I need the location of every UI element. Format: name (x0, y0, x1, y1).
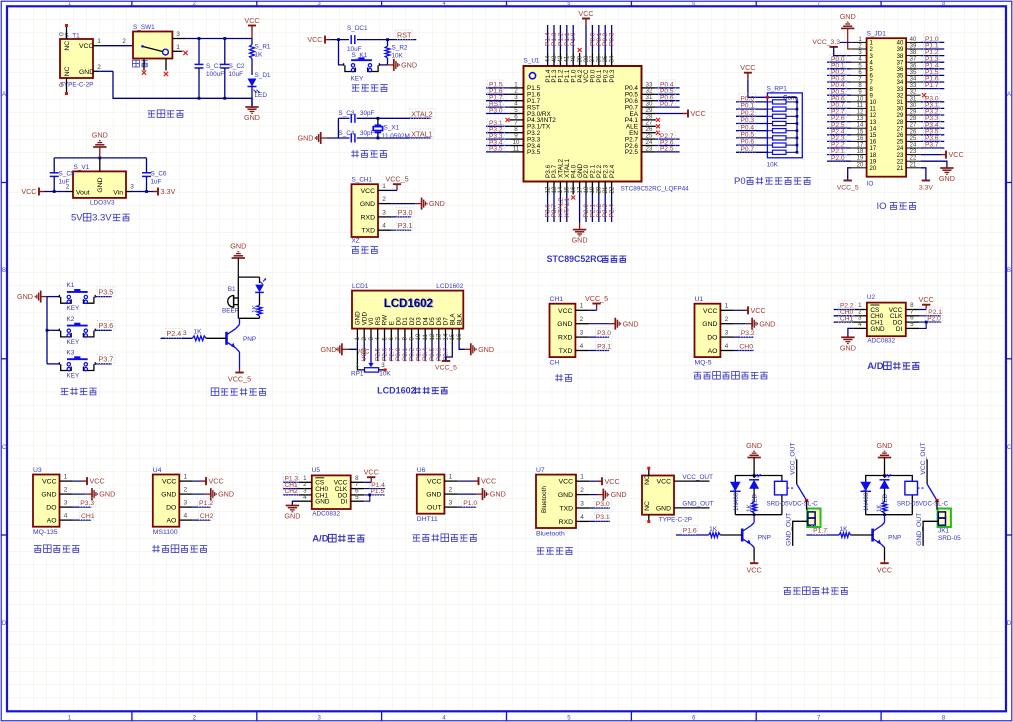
ground keys (17, 291, 47, 303)
svg-text:Com: Com (783, 95, 796, 102)
wire XTAL2 (338, 117, 430, 138)
key K3 (47, 349, 95, 379)
key K1 (47, 282, 95, 312)
wires LCD pins (354, 329, 463, 362)
svg-text:SRD-05VDC-SL-C: SRD-05VDC-SL-C (897, 501, 949, 508)
svg-text:LCD1602: LCD1602 (377, 386, 416, 396)
svg-text:MS1100: MS1100 (153, 529, 178, 536)
svg-text:5V: 5V (71, 213, 83, 224)
svg-text:3.3V: 3.3V (92, 213, 112, 224)
wire IO pin1 (840, 41, 851, 43)
svg-text:BEEP: BEEP (222, 308, 239, 315)
svg-text:P2.5: P2.5 (660, 146, 674, 153)
svg-text:KEY: KEY (351, 76, 365, 83)
svg-text:GND: GND (315, 499, 330, 506)
svg-text:1N4007: 1N4007 (863, 489, 870, 511)
ground LCD left (321, 342, 370, 356)
svg-text:31: 31 (897, 100, 904, 106)
svg-text:P2.4: P2.4 (167, 329, 182, 338)
svg-text:13: 13 (870, 120, 877, 126)
wire GND_OUT relay P1.7 (916, 501, 938, 546)
svg-text:NC: NC (644, 475, 651, 485)
svg-text:2: 2 (449, 487, 453, 494)
svg-text:15: 15 (857, 129, 864, 135)
svg-text:24: 24 (897, 146, 904, 152)
svg-text:1: 1 (580, 474, 584, 481)
svg-text:GND: GND (230, 242, 246, 251)
svg-text:A: A (1007, 92, 1011, 98)
svg-text:24: 24 (910, 143, 917, 149)
diode 1N4007 P1.7 (860, 482, 871, 511)
svg-text:P3.0: P3.0 (489, 107, 503, 114)
svg-text:3: 3 (64, 500, 68, 507)
svg-text:GND: GND (429, 199, 445, 208)
svg-text:26: 26 (897, 133, 904, 139)
svg-text:P1.7: P1.7 (813, 528, 827, 535)
svg-text:33: 33 (897, 87, 904, 93)
net label P1.7 relay input (806, 526, 839, 535)
caption 按键电路 (61, 387, 97, 395)
svg-text:VCC: VCC (558, 308, 572, 315)
svg-text:GND: GND (360, 201, 375, 208)
svg-text:27: 27 (910, 123, 917, 129)
svg-text:25: 25 (910, 136, 917, 142)
caption 串口 (555, 374, 572, 382)
svg-text:GND: GND (939, 174, 955, 183)
resistor 1K relay base P1.6 (709, 526, 743, 537)
svg-text:0: 0 (59, 32, 66, 36)
connector TYPE-C-2P output (642, 467, 692, 524)
svg-text:35: 35 (910, 70, 917, 76)
svg-text:S_C2: S_C2 (229, 63, 245, 70)
svg-text:29: 29 (897, 113, 904, 119)
svg-text:A/D: A/D (312, 534, 329, 545)
svg-text:S_CH1: S_CH1 (352, 177, 373, 184)
wire GND rail power circuit (93, 64, 252, 107)
svg-text:P3.0: P3.0 (398, 208, 413, 217)
svg-text:11.0592M: 11.0592M (382, 133, 410, 140)
power port VCC IO right (921, 150, 964, 159)
svg-text:30: 30 (897, 107, 904, 113)
svg-text:P0: P0 (734, 176, 746, 187)
svg-text:3.3V: 3.3V (919, 185, 933, 192)
wire T1.VCC to SW1 (93, 38, 133, 46)
wire key bus (46, 297, 49, 364)
svg-text:10K: 10K (379, 370, 391, 377)
svg-text:11: 11 (857, 103, 864, 109)
ground power circuit (244, 107, 260, 122)
svg-text:34: 34 (897, 80, 904, 86)
svg-text:U2: U2 (867, 294, 876, 301)
svg-text:VCC: VCC (79, 43, 93, 50)
svg-text:GND: GND (557, 321, 572, 328)
svg-text:S_V1: S_V1 (74, 164, 90, 171)
svg-text:S_X1: S_X1 (384, 125, 400, 132)
svg-text:1K: 1K (255, 52, 264, 59)
net label P1.5 U5 (364, 486, 385, 495)
svg-text:22: 22 (910, 156, 917, 162)
svg-text:D: D (1007, 621, 1012, 627)
svg-text:VCC: VCC (605, 477, 620, 486)
net label P3.2 MQ-5 (734, 328, 757, 337)
svg-text:10K: 10K (392, 53, 404, 60)
svg-text:B: B (2, 268, 6, 274)
svg-text:VCC: VCC (356, 349, 370, 356)
net label P2.4 alarm (161, 329, 193, 339)
wire VCC rail power circuit (185, 37, 252, 40)
wires U5 left nets (283, 474, 299, 496)
svg-text:P2.4: P2.4 (609, 204, 616, 218)
svg-text:P0.3: P0.3 (741, 117, 755, 124)
svg-text:AO: AO (708, 348, 718, 355)
svg-text:K2: K2 (67, 316, 75, 323)
svg-text:2: 2 (382, 196, 386, 203)
svg-text:LED: LED (255, 92, 268, 99)
net label P2.1 U2 (919, 307, 942, 316)
LED S_D1 (248, 72, 271, 107)
caption 蓝牙模块 (537, 548, 573, 555)
resistor 1K relay P1.6 (746, 488, 757, 514)
resistor 1K alarm base (192, 329, 226, 341)
svg-text:CH2: CH2 (285, 488, 299, 495)
crystal S_X1 11.0592M (373, 118, 410, 140)
svg-text:S_DC1: S_DC1 (347, 25, 368, 32)
svg-text:GND: GND (426, 492, 441, 499)
svg-text:4: 4 (183, 513, 187, 520)
ground IO right (921, 161, 955, 183)
wire alarm top node (238, 277, 259, 298)
svg-text:1: 1 (580, 303, 584, 310)
wire 5V module top rail (54, 157, 146, 172)
connector CH1 serial (550, 296, 589, 366)
svg-text:100uF: 100uF (206, 71, 224, 78)
svg-text:3: 3 (318, 1, 321, 7)
svg-text:GND: GND (877, 441, 893, 450)
svg-text:GND_OUT: GND_OUT (682, 500, 713, 507)
svg-text:4: 4 (64, 513, 68, 520)
power port VCC MQ-5 (734, 306, 766, 315)
svg-text:1K: 1K (709, 526, 718, 533)
svg-text:P0.4: P0.4 (741, 124, 755, 131)
svg-text:P1.2: P1.2 (199, 500, 213, 507)
ground IO top (840, 12, 856, 49)
svg-text:VCC: VCC (21, 187, 36, 196)
buzzer B1 BEEP (222, 286, 239, 315)
svg-text:P3.5: P3.5 (99, 287, 114, 296)
svg-text:TYPE-C-2P: TYPE-C-2P (659, 517, 692, 524)
svg-text:10: 10 (870, 100, 877, 106)
net label XTAL2 (410, 109, 436, 118)
svg-text:VCC: VCC (691, 109, 706, 118)
svg-text:GND: GND (92, 131, 108, 140)
resistor network S_RP1 10K (767, 86, 803, 169)
svg-text:GND: GND (298, 134, 314, 143)
svg-text:VCC_5: VCC_5 (228, 375, 251, 384)
svg-text:7: 7 (817, 1, 820, 7)
sensor U1 MQ-5 (695, 296, 734, 366)
svg-text:B1: B1 (228, 286, 236, 293)
svg-text:34: 34 (910, 77, 917, 83)
capacitor S_C6 1uF (142, 166, 167, 192)
svg-text:S_C3: S_C3 (338, 110, 354, 117)
svg-text:NC: NC (644, 501, 651, 511)
svg-text:XTAL2: XTAL2 (411, 109, 432, 118)
ground bottom of U1 (572, 223, 588, 245)
sensor U6 DHT11 (417, 467, 458, 523)
svg-text:GND: GND (656, 506, 671, 513)
key K2 (47, 316, 95, 346)
svg-text:GND: GND (572, 236, 588, 245)
svg-text:VCC: VCC (747, 565, 762, 574)
svg-text:VCC: VCC (364, 467, 379, 476)
svg-text:D: D (2, 621, 7, 627)
sensor U4 MS1100 (153, 467, 193, 536)
relay coil SRD-05VDC-SL-C P1.6 (767, 481, 819, 507)
svg-text:GND: GND (558, 492, 573, 499)
svg-text:U6: U6 (417, 467, 426, 474)
svg-text:P3.5: P3.5 (489, 146, 503, 153)
power port VCC reset (307, 35, 330, 44)
svg-text:10uF: 10uF (229, 71, 244, 78)
svg-text:XZ: XZ (352, 238, 360, 245)
svg-text:P2.4: P2.4 (609, 164, 616, 178)
power port VCC U6 (458, 477, 496, 486)
caption P0口上拉电阻电路 (734, 176, 811, 187)
power port 3.3V (126, 184, 175, 197)
svg-text:17: 17 (857, 143, 864, 149)
svg-text:Bluetooth: Bluetooth (541, 486, 548, 513)
caption 晶振电路 (351, 150, 387, 158)
svg-text:VCC: VCC (90, 477, 105, 486)
ground U6 (458, 488, 506, 500)
svg-text:GND: GND (161, 492, 176, 499)
caption 声光报警电路 (211, 388, 266, 396)
svg-text:11: 11 (870, 107, 877, 113)
svg-text:GND: GND (623, 319, 639, 328)
svg-text:JK1: JK1 (938, 528, 949, 535)
svg-text:U4: U4 (153, 467, 162, 474)
svg-text:33: 33 (910, 83, 917, 89)
svg-text:SRD-05VDC-SL-C: SRD-05VDC-SL-C (767, 501, 819, 508)
caption 复位电路 (352, 85, 388, 92)
svg-text:4: 4 (858, 321, 862, 328)
svg-text:GND: GND (79, 69, 94, 76)
svg-text:AO: AO (47, 518, 57, 525)
svg-text:VCC_5: VCC_5 (837, 185, 859, 192)
power port VCC U2 (919, 295, 934, 310)
ADC U2 ADC0832 (854, 294, 920, 345)
connector S_JD1 IO (851, 31, 920, 188)
svg-text:GND_OUT: GND_OUT (786, 513, 793, 546)
svg-text:34: 34 (608, 55, 615, 62)
svg-text:VCC: VCC (209, 477, 224, 486)
svg-text:1: 1 (356, 362, 360, 369)
wire relay loop P1.7 (866, 474, 913, 516)
svg-text:S_C5: S_C5 (59, 171, 75, 178)
svg-text:VCC_5: VCC_5 (585, 294, 608, 303)
svg-text:GND: GND (702, 321, 717, 328)
svg-text:GND: GND (840, 343, 856, 352)
svg-text:DO: DO (707, 335, 717, 342)
power port VCC U7 (589, 477, 619, 486)
svg-text:2: 2 (580, 316, 584, 323)
power port 3.3V IO bottom (919, 168, 933, 192)
svg-text:1: 1 (725, 303, 729, 310)
power port VCC U4 (193, 477, 224, 486)
svg-text:1uF: 1uF (151, 179, 162, 186)
resistor S_R1 1K (250, 39, 271, 76)
caption A/D转换电路 bottom (312, 534, 364, 545)
wires top pins U1 (544, 25, 615, 66)
svg-text:14: 14 (857, 123, 864, 129)
svg-text:U7: U7 (536, 467, 545, 474)
svg-text:TXD: TXD (559, 348, 573, 355)
svg-text:1: 1 (176, 44, 180, 51)
power port VCC_5 IO bottom (837, 168, 859, 192)
svg-text:12: 12 (870, 113, 877, 119)
svg-text:15: 15 (870, 133, 877, 139)
svg-text:GND: GND (17, 292, 33, 301)
svg-text:GND: GND (746, 441, 762, 450)
svg-text:3: 3 (130, 184, 134, 191)
svg-text:P1.7: P1.7 (925, 82, 939, 89)
svg-text:VCC: VCC (244, 16, 259, 25)
wires U2 left nets (834, 301, 856, 323)
svg-text:MQ-135: MQ-135 (33, 529, 58, 536)
power port VCC U5 (364, 467, 379, 482)
svg-text:3: 3 (382, 209, 386, 216)
svg-text:1: 1 (183, 474, 187, 481)
svg-text:1: 1 (97, 38, 101, 45)
svg-text:23: 23 (910, 149, 917, 155)
ground LCD right (459, 342, 494, 356)
svg-text:40: 40 (910, 37, 917, 43)
net label GND_OUT (674, 500, 714, 508)
svg-text:4: 4 (580, 343, 584, 350)
net label P2.0 U2 (919, 313, 942, 322)
svg-text:23: 23 (897, 153, 904, 159)
svg-text:1: 1 (382, 183, 386, 190)
power port VCC U3 (73, 477, 105, 486)
ground 5V module (92, 131, 108, 158)
svg-text:IO: IO (877, 201, 887, 212)
svg-text:S_RP1: S_RP1 (767, 86, 788, 93)
svg-text:28: 28 (897, 120, 904, 126)
net label P3.1 serial (589, 341, 612, 350)
svg-text:0: 0 (59, 83, 66, 87)
svg-text:P1.6: P1.6 (683, 528, 697, 535)
ground reset (388, 59, 418, 71)
ground serial (589, 318, 639, 330)
svg-text:1: 1 (64, 474, 68, 481)
module U7 Bluetooth (536, 467, 589, 537)
svg-text:VCC: VCC (481, 477, 496, 486)
svg-text:P3.0: P3.0 (597, 330, 611, 337)
svg-text:STC89C52RC_LQFP44: STC89C52RC_LQFP44 (621, 186, 690, 193)
svg-text:GND: GND (870, 326, 885, 333)
svg-text:5: 5 (355, 494, 359, 501)
connector JK SRD-05 P1.6 (807, 509, 820, 528)
svg-text:MQ-5: MQ-5 (695, 360, 712, 367)
svg-text:VCC: VCC (657, 479, 671, 486)
caption 下载口 (352, 247, 379, 254)
svg-text:11: 11 (513, 145, 520, 152)
svg-text:P2.0: P2.0 (927, 315, 941, 322)
svg-text:27: 27 (897, 126, 904, 132)
svg-text:2: 2 (183, 487, 187, 494)
svg-text:3: 3 (449, 500, 453, 507)
svg-text:16: 16 (857, 136, 864, 142)
net label P3.6 (95, 321, 115, 331)
svg-text:S_SW1: S_SW1 (133, 24, 155, 31)
svg-text:RXD: RXD (558, 335, 572, 342)
net label CH2 U4 (193, 511, 214, 520)
svg-text:TXD: TXD (559, 506, 573, 513)
net label CH1 U3 (73, 511, 95, 520)
LCD module LCD1 LCD1602 (352, 283, 464, 329)
svg-text:6: 6 (692, 1, 695, 7)
caption A/D转换电路 right (867, 361, 919, 372)
svg-text:P0.3: P0.3 (609, 69, 616, 83)
caption LCD1602显示模块 (377, 386, 448, 396)
svg-text:NC: NC (64, 66, 71, 76)
switch S_SW1 (133, 24, 188, 76)
svg-text:GND_OUT: GND_OUT (916, 513, 923, 546)
resistor 1K relay P1.7 (876, 488, 887, 514)
ground MQ-5 (734, 318, 776, 330)
resistor alarm 1K (252, 292, 262, 318)
net label P3.0 U7 (589, 499, 611, 508)
capacitor S_C5 1uF (50, 166, 75, 192)
net label XTAL1 (410, 129, 435, 138)
svg-text:39: 39 (897, 47, 904, 53)
net label RST (396, 30, 413, 39)
svg-text:37: 37 (897, 60, 904, 66)
svg-text:XTAL1: XTAL1 (564, 197, 571, 217)
svg-text:VCC: VCC (877, 565, 892, 574)
svg-text:GND: GND (611, 490, 627, 499)
svg-text:20: 20 (870, 166, 877, 172)
svg-text:P0.6: P0.6 (741, 139, 755, 146)
svg-text:VCC: VCC (307, 35, 322, 44)
svg-text:K3: K3 (67, 349, 75, 356)
svg-text:AO: AO (166, 518, 176, 525)
relay switch P1.7 (920, 442, 939, 502)
caption STC89C52RC主芯片 (547, 254, 627, 264)
net label P3.5 (95, 287, 115, 297)
power port VCC_5 serial (585, 294, 608, 311)
caption 电源电路 (148, 110, 184, 118)
svg-text:P1.0: P1.0 (570, 32, 577, 46)
svg-text:VCC: VCC (578, 9, 593, 18)
capacitor S_C1 100uF (195, 39, 225, 99)
svg-text:U5: U5 (312, 467, 321, 474)
wire U2 DI join (919, 321, 928, 329)
svg-text:5: 5 (567, 1, 570, 7)
svg-text:ADC0832: ADC0832 (867, 338, 895, 345)
power port VCC relay P1.7 (877, 560, 892, 574)
svg-text:21: 21 (910, 162, 917, 168)
svg-text:18: 18 (870, 153, 877, 159)
svg-text:P3.2: P3.2 (741, 330, 755, 337)
svg-text:1K: 1K (876, 504, 883, 512)
svg-text:1K: 1K (252, 304, 259, 313)
wires right pins U1 (642, 80, 706, 153)
svg-text:P3.0: P3.0 (596, 501, 610, 508)
svg-text:VCC_5: VCC_5 (435, 365, 457, 372)
svg-text:3: 3 (580, 500, 584, 507)
LED relay P1.7 (880, 474, 892, 506)
